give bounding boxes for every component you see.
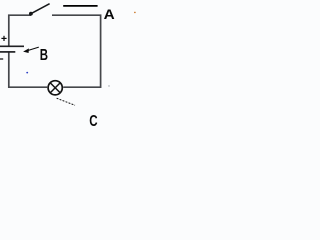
stray blue dot artifact (26, 72, 28, 74)
annotation line for A (63, 5, 97, 7)
wire top-right segment (52, 15, 101, 87)
switch pivot dot (29, 12, 33, 16)
minus sign (0, 58, 3, 60)
battery cell B: short negative plate (0, 51, 15, 53)
wire bottom-left segment (9, 52, 47, 87)
lamp C: cross (50, 83, 60, 93)
wire top-left segment (9, 15, 31, 46)
svg-text:C: C (89, 112, 97, 129)
svg-text:B: B (40, 46, 48, 63)
svg-text:A: A (104, 7, 115, 22)
plus sign (1, 36, 6, 41)
stray orange dot artifact (134, 12, 136, 14)
battery cell B: long positive plate (0, 45, 24, 47)
arrow pointing to battery (label B) (23, 47, 39, 53)
dashed leader line for C (57, 98, 75, 105)
lamp C: circle (48, 81, 62, 95)
switch blade (open) (31, 4, 50, 14)
stray gray dot artifact (108, 85, 109, 86)
